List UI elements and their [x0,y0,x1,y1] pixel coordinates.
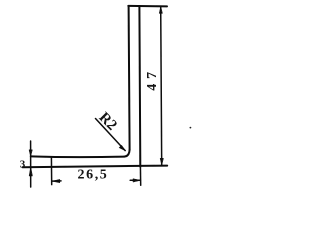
dimension line 3 (vertical, at left end of part, also left end cap) [30,141,32,187]
extension line for 26,5 left (feature line on leg) [50,157,52,185]
svg-text:47: 47 [145,67,160,91]
wire top edge of horizontal leg [31,155,124,158]
dimension line 26,5 right stub with arrow pointing right [130,179,140,181]
wire bottom edge of horizontal leg with extensions both sides [23,166,168,168]
arrow up at top for dim 47 [159,7,162,14]
dimension line 26,5 left stub with arrow pointing left [52,180,61,182]
svg-text:3: 3 [20,159,26,171]
speckle dot [190,127,192,129]
arrow up at bottom edge for dim 3 [29,167,32,176]
arrow down at top edge for dim 3 [29,150,32,156]
wire inner (left) edge of vertical leg [129,6,130,150]
wire outer (right) edge of vertical leg [138,6,141,167]
extension line for 26,5 right (below part, from right edge) [139,167,141,185]
svg-text:26,5: 26,5 [78,168,109,183]
dimension line 47 (vertical at right) [161,7,162,165]
leader line R2 with arrow to fillet [96,119,126,151]
svg-text:R2: R2 [96,109,120,133]
arrow down at bottom for dim 47 [160,158,163,165]
wire inner fillet arc R2 at corner [124,150,129,157]
wire top edge of vertical leg with extension line to 47 dimension [128,5,167,8]
